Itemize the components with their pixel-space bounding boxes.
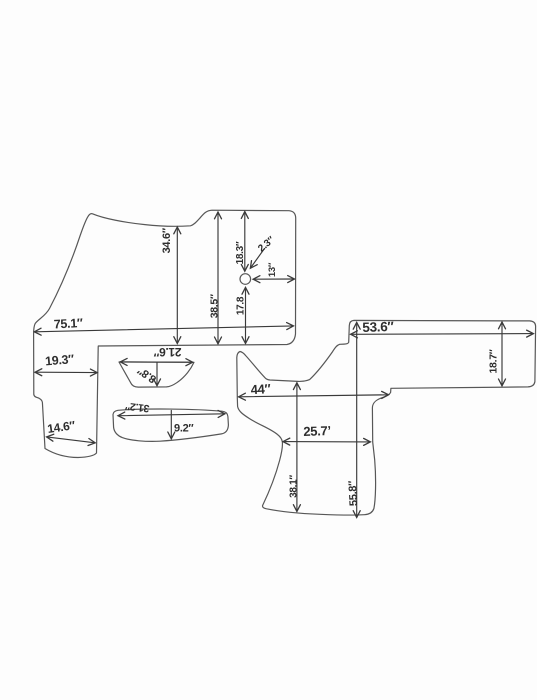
svg-text:18.3″: 18.3″ [235,241,246,264]
dim line 53.6 [351,333,533,336]
dim line 25.7 [283,441,370,443]
dim line 38.5 vertical [217,212,219,343]
svg-text:2.3″: 2.3″ [256,234,277,254]
svg-text:13″: 13″ [267,262,278,277]
svg-text:9.2″: 9.2″ [174,423,194,435]
svg-text:55.8″: 55.8″ [347,480,360,507]
dim line 75.1 [35,326,294,332]
trapezoid template [119,362,194,387]
dim line 18.3 vertical [244,212,246,271]
svg-text:44″: 44″ [250,381,271,397]
svg-text:31.2″: 31.2″ [125,399,151,414]
svg-text:25.7’: 25.7’ [303,423,331,439]
dim line 44 [239,395,388,397]
leader 2.3 [251,249,265,269]
dim line 14.6 [47,437,95,443]
left template outline [34,210,296,457]
dim line 34.6 vertical [176,227,178,343]
dim line 21.6 on trapezoid top [121,361,193,363]
dim line 8.8 vertical in trapezoid [156,362,158,385]
dim line 38.1 vertical [296,383,298,511]
dim line 9.2 vertical in strip [170,410,172,438]
svg-text:38.1″: 38.1″ [288,475,299,498]
svg-text:75.1″: 75.1″ [53,316,83,332]
svg-text:38.5″: 38.5″ [209,294,221,318]
svg-text:18.7″: 18.7″ [488,349,500,373]
dim line 18.7 vertical [501,322,503,385]
dim line 19.3 [35,371,97,373]
dim line 17.8 vertical [245,288,247,344]
svg-text:19.3″: 19.3″ [45,352,75,368]
svg-text:34.6″: 34.6″ [161,227,173,253]
dim line 55.8 vertical [356,323,358,518]
svg-text:21.6″: 21.6″ [153,345,181,359]
svg-text:14.6″: 14.6″ [46,418,76,436]
dim line 31.2 on strip [118,414,225,416]
right template outline [237,320,536,515]
dim line 13 horizontal [253,278,294,280]
svg-text:8.8″: 8.8″ [135,364,159,386]
hole in left template [240,274,251,285]
svg-text:17.8: 17.8 [235,296,246,315]
long strip template [113,409,228,441]
svg-text:53.6″: 53.6″ [362,319,395,335]
